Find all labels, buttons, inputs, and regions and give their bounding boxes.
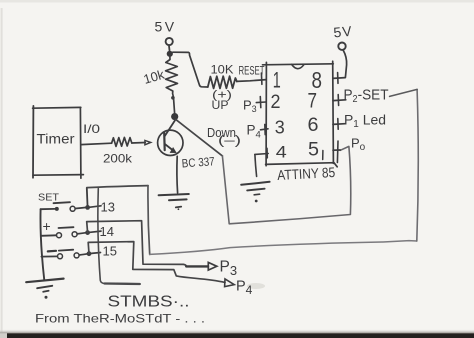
wire node to reset resistor — [173, 52, 208, 87]
svg-text:3: 3 — [275, 118, 285, 138]
switch SET — [38, 192, 101, 212]
svg-text:14: 14 — [100, 224, 114, 239]
switch minus — [41, 250, 100, 259]
svg-text:5V: 5V — [155, 19, 177, 35]
svg-text:7: 7 — [308, 90, 318, 113]
Timer box — [33, 106, 84, 178]
svg-text:200k: 200k — [103, 152, 133, 166]
wire 200k to base with arrow — [132, 140, 151, 144]
net P2-SET loop wire — [87, 89, 418, 254]
svg-text:Timer: Timer — [37, 132, 76, 147]
svg-text:P2-SET: P2-SET — [344, 87, 389, 106]
svg-text:(–): (–) — [218, 134, 241, 148]
svg-text:5V: 5V — [333, 23, 354, 41]
pin 1 RESET tick and number — [261, 68, 280, 93]
svg-text:From TheR-MoSTdT - . . .: From TheR-MoSTdT - . . . — [35, 312, 205, 326]
svg-text:BC 337: BC 337 — [181, 154, 215, 170]
ground emitter — [159, 194, 189, 210]
label (+) UP — [212, 88, 233, 113]
pin 2 P3 — [243, 92, 281, 114]
svg-text:STMBS·..: STMBS·.. — [108, 294, 190, 311]
svg-text:P1 Led: P1 Led — [344, 112, 386, 131]
transistor Q1 BC337 — [158, 120, 216, 171]
svg-text:I/0: I/0 — [83, 122, 100, 136]
svg-text:10K: 10K — [211, 63, 234, 77]
svg-text:13: 13 — [101, 200, 115, 215]
wire pin4 to ground — [255, 155, 257, 177]
wire R2 to pin 1 — [237, 80, 266, 82]
wire emitter to ground — [176, 156, 179, 193]
arrow P4 — [225, 279, 235, 287]
resistor R1 10k vertical — [142, 54, 178, 113]
node collector — [171, 113, 178, 120]
node pull-up junction — [167, 51, 173, 57]
power terminal 5V left — [155, 19, 177, 46]
pin 3 P4 — [247, 118, 285, 141]
ground switch bus — [26, 279, 63, 299]
IC U1 ATTINY85 body — [263, 61, 338, 167]
wire 5V to node — [168, 46, 171, 51]
power terminal 5V right — [333, 23, 354, 78]
svg-text:1: 1 — [273, 68, 281, 93]
svg-text:15: 15 — [103, 244, 117, 259]
pin 6 P1 Led — [308, 112, 387, 137]
svg-text:2: 2 — [271, 92, 281, 113]
resistor R2 10K reset — [208, 63, 237, 89]
terminal strip line — [98, 189, 140, 284]
svg-text:ATTINY 85: ATTINY 85 — [277, 164, 336, 183]
svg-text:SET: SET — [38, 192, 60, 204]
arrow P3 — [186, 262, 217, 270]
svg-text:6: 6 — [308, 115, 319, 136]
wire collector diagonal — [176, 120, 223, 156]
pin 4 — [255, 143, 287, 162]
switch bus wire — [40, 209, 44, 280]
switch plus — [41, 218, 101, 238]
wire timer to 200k — [81, 143, 112, 144]
svg-text:4: 4 — [276, 143, 287, 162]
net P0 loop wire — [222, 146, 350, 223]
net P3 wire from plus switch — [87, 221, 187, 267]
svg-text:5: 5 — [308, 140, 319, 161]
pin 5 P0 — [308, 136, 366, 163]
pin 7 P2-SET — [308, 87, 389, 113]
resistor R3 200k — [103, 137, 133, 165]
label Down (-) — [207, 126, 241, 148]
svg-text:UP: UP — [212, 98, 229, 112]
pin 8 — [312, 67, 346, 93]
net P4 wire from minus switch — [88, 242, 225, 283]
ground pin4 — [241, 182, 269, 203]
svg-text:+: + — [43, 218, 51, 234]
